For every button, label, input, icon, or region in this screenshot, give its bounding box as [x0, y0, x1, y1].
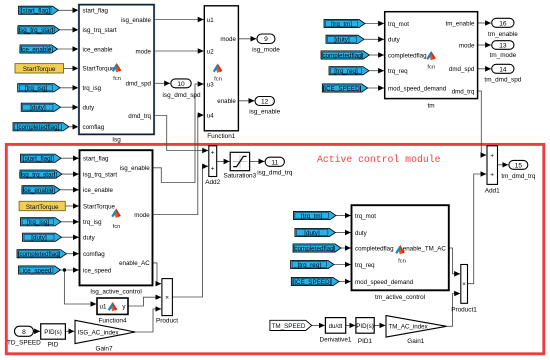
svg-text:11: 11 [271, 159, 278, 166]
constant StartTorque (bottom left) [19, 201, 65, 211]
svg-text:[duty]: [duty] [30, 105, 46, 112]
inport 8 TD_SPEED [7, 326, 41, 346]
svg-text:comflag: comflag [83, 124, 105, 131]
sum block Add2 [205, 146, 220, 186]
wire tm mode to outport 13 [478, 44, 491, 46]
svg-text:u3: u3 [207, 81, 214, 88]
wire tm dmd_spd to outport 14 [478, 68, 491, 70]
svg-text:ice_enable: ice_enable [83, 46, 113, 53]
svg-text:Product1: Product1 [451, 307, 477, 314]
svg-text:enable: enable [217, 98, 236, 105]
outport 10 isg_dmd_spd [162, 79, 200, 99]
junction node on ice_speed wire [63, 268, 66, 271]
from tag TM_SPEED (bottom) [270, 320, 312, 330]
wire completedflag to Isg_active_control [67, 253, 79, 255]
svg-text:PID(s): PID(s) [356, 323, 374, 330]
from tag [ICE_SPEED] (top right) [322, 84, 367, 92]
svg-text:mode: mode [136, 48, 152, 55]
wire ICE_SPEED to tm_active_control [339, 281, 351, 283]
svg-text:8: 8 [22, 329, 26, 336]
wire completedflag to tm [369, 54, 384, 56]
svg-text:tm_enable: tm_enable [445, 20, 474, 27]
svg-text:9: 9 [264, 36, 268, 43]
outport 13 tm_mode [490, 41, 517, 59]
wire Isg dmd_spd to outport 10 [154, 82, 170, 84]
outport 9 isg_mode [252, 34, 280, 53]
svg-text:tm: tm [428, 103, 435, 110]
constant StartTorque (top) [15, 64, 64, 74]
svg-text:[completedflag]: [completedflag] [17, 124, 60, 131]
svg-text:14: 14 [499, 66, 507, 73]
svg-text:duty: duty [355, 230, 368, 237]
svg-text:[trq_req]: [trq_req] [298, 262, 322, 269]
svg-text:isg_dmd_spd: isg_dmd_spd [162, 92, 200, 99]
svg-text:TM_AC_index: TM_AC_index [389, 324, 429, 331]
from tag [start_flag] (bottom left) [21, 154, 62, 162]
product block Product [156, 279, 178, 325]
outport 12 isg_enable [249, 97, 280, 116]
svg-text:[ice_enable]: [ice_enable] [19, 46, 53, 53]
svg-text:[isg_trq_start]: [isg_trq_start] [19, 171, 57, 178]
svg-text:fcn: fcn [427, 65, 435, 71]
svg-text:[ICE_SPEED]: [ICE_SPEED] [323, 85, 362, 92]
svg-text:enable_AC: enable_AC [119, 260, 150, 267]
wire completedflag to Isg [69, 126, 78, 128]
svg-text:×: × [462, 281, 466, 288]
subsystem Isg_active_control [80, 150, 153, 295]
svg-text:isg_trq_start: isg_trq_start [83, 27, 117, 34]
svg-text:mode: mode [134, 212, 150, 219]
gain block Gain7 [75, 320, 135, 352]
from tag [duty] (bottom left) [23, 233, 62, 241]
svg-text:u2: u2 [207, 48, 214, 55]
outport 14 tm_dmd_spd [484, 64, 521, 83]
from tag [trq_isg] (bottom left) [21, 218, 62, 226]
svg-text:Function4: Function4 [98, 317, 127, 324]
svg-text:+: + [490, 153, 494, 160]
gain block Gain1 [386, 316, 447, 346]
wire trq_req to tm [369, 70, 384, 72]
wire isg_trq_start to Isg [60, 29, 79, 31]
svg-text:u1: u1 [207, 17, 214, 24]
wire tm_active_control enable_TM_AC to Product1 input 1 [449, 248, 460, 274]
wire tm tm_enable to outport 16 [478, 22, 491, 24]
svg-text:Product: Product [156, 318, 178, 325]
wire Saturation3 to outport 11 [250, 160, 265, 162]
from tag [completedflag] (bottom left) [17, 250, 67, 258]
wire duty to tm_active_control [335, 232, 350, 234]
wire Gain7 to Product input 3 [135, 309, 161, 332]
svg-text:ice_speed: ice_speed [83, 267, 112, 274]
svg-text:PID: PID [48, 342, 59, 349]
svg-text:13: 13 [499, 43, 507, 50]
svg-text:[duty]: [duty] [334, 37, 350, 44]
svg-text:[ICE_SPEED]: [ICE_SPEED] [293, 279, 332, 286]
wire TM_SPEED to Derivative1 [312, 324, 325, 326]
svg-text:completedflag: completedflag [388, 52, 427, 59]
svg-text:TD_SPEED: TD_SPEED [7, 339, 41, 346]
svg-text:PID1: PID1 [358, 338, 373, 345]
svg-text:[isg_trq_start]: [isg_trq_start] [17, 27, 55, 34]
from tag [ice_enable] (top) [19, 45, 57, 53]
svg-text:Isg_active_control: Isg_active_control [90, 288, 142, 295]
svg-text:u1: u1 [100, 304, 107, 311]
wire Gain1 to Product1 input 2 [447, 294, 460, 327]
svg-text:ISG_AC_index: ISG_AC_index [78, 329, 120, 336]
svg-text:start_flag: start_flag [83, 8, 109, 15]
wire Isg_active_control mode to Function1 u4 [153, 115, 204, 214]
svg-text:PID(s): PID(s) [44, 329, 62, 336]
wire ice_enable to Isg_active_control [60, 189, 79, 191]
from tag [duty] (bottom right) [295, 228, 336, 236]
wire trq_isg to Isg_active_control [61, 221, 79, 223]
from tag [isg_trq_start] (top) [17, 26, 60, 34]
wire Function4 y to Product input 2 [128, 297, 161, 306]
subsystem tm_active_control [352, 205, 449, 301]
svg-text:tm_dmd_trq: tm_dmd_trq [501, 173, 536, 180]
wire duty to Isg [61, 106, 79, 108]
svg-text:Add2: Add2 [205, 179, 220, 186]
svg-text:isg_trq_start: isg_trq_start [83, 171, 117, 178]
saturation block Saturation3 [223, 152, 256, 179]
wire ice_speed to Isg_active_control [61, 269, 79, 271]
svg-text:dmd_trq: dmd_trq [452, 88, 475, 95]
svg-text:trq_req: trq_req [355, 262, 375, 269]
sum block Add1 [485, 146, 500, 195]
svg-text:Saturation3: Saturation3 [223, 173, 256, 180]
svg-text:[completedflag]: [completedflag] [321, 52, 364, 59]
svg-text:[start_flag]: [start_flag] [21, 8, 51, 15]
wire branch ice_speed down to Function4 u1 [64, 270, 96, 304]
svg-text:[start_flag]: [start_flag] [23, 156, 53, 163]
svg-text:dmd_trq: dmd_trq [128, 113, 151, 120]
wire Isg_active_control isg_enable to Function1 u3 [153, 84, 204, 183]
product block Product1 [451, 265, 477, 314]
svg-text:fcn: fcn [113, 76, 121, 82]
svg-text:trq_mot: trq_mot [355, 213, 376, 220]
svg-text:tm_active_control: tm_active_control [375, 294, 425, 301]
svg-text:Function1: Function1 [207, 133, 236, 140]
svg-text:dmd_spd: dmd_spd [126, 81, 152, 88]
wire trq_req to tm_active_control [334, 264, 351, 266]
derivative block Derivative1 [320, 318, 352, 344]
from tag [isg_trq_start] (bottom left) [19, 170, 62, 178]
svg-text:×: × [165, 294, 169, 301]
wire completedflag to tm_active_control [341, 247, 351, 249]
svg-text:StartTorque: StartTorque [83, 66, 116, 73]
wire Add1 to outport 15 [498, 164, 509, 166]
wire StartTorque to Isg_active_control [65, 205, 78, 207]
wire inport 8 to PID [33, 330, 40, 332]
svg-text:duty: duty [83, 105, 96, 112]
from tag [ICE_SPEED] (bottom right) [291, 277, 339, 285]
svg-text:[trq_tm]: [trq_tm] [301, 213, 323, 220]
svg-text:mod_speed_demand: mod_speed_demand [388, 85, 447, 92]
svg-text:mod_speed_demand: mod_speed_demand [355, 279, 414, 286]
svg-text:Gain1: Gain1 [407, 338, 424, 345]
svg-text:trq_isg: trq_isg [83, 85, 102, 92]
svg-text:[duty]: [duty] [304, 230, 320, 237]
wire trq_tm to tm_active_control [336, 215, 351, 217]
subsystem tm [385, 12, 478, 110]
svg-text:Gain7: Gain7 [95, 345, 112, 352]
svg-text:isg_dmd_trq: isg_dmd_trq [257, 169, 293, 176]
wire ICE_SPEED to tm [368, 87, 384, 89]
from tag [trq_req] (bottom right) [291, 260, 334, 268]
svg-text:tm_dmd_spd: tm_dmd_spd [484, 77, 521, 84]
svg-text:[trq_tm]: [trq_tm] [331, 21, 353, 28]
svg-text:trq_req: trq_req [388, 68, 408, 75]
from tag [start_flag] (top) [19, 6, 59, 14]
svg-text:[trq_isg]: [trq_isg] [25, 85, 48, 92]
function block Function1 [204, 6, 238, 140]
svg-text:Active control module: Active control module [317, 154, 441, 165]
svg-text:isg_enable: isg_enable [249, 108, 280, 115]
svg-text:duty: duty [83, 235, 96, 242]
from tag [trq_tm] (bottom right) [293, 211, 336, 219]
svg-text:mode: mode [459, 42, 475, 49]
svg-text:Isg: Isg [112, 137, 121, 144]
wire Derivative1 to PID1 [346, 324, 355, 326]
svg-text:16: 16 [499, 20, 507, 27]
svg-text:ice_speed: ice_speed [23, 267, 52, 274]
outport 15 tm_dmd_trq [501, 160, 536, 179]
svg-text:mode: mode [220, 36, 236, 43]
svg-text:[trq_req]: [trq_req] [334, 68, 358, 75]
pid block PID1 [356, 318, 374, 346]
svg-text:completedflag: completedflag [355, 245, 394, 252]
wire isg_trq_start to Isg_active_control [62, 173, 79, 175]
svg-text:fcn: fcn [113, 224, 121, 230]
from tag [trq_req] (top right) [329, 67, 369, 75]
wire start_flag to Isg [59, 9, 79, 11]
wire Product to Add2 input 2 [172, 166, 208, 297]
Active control module red boundary box [6, 144, 544, 353]
svg-text:isg_mode: isg_mode [252, 46, 280, 53]
wire Isg isg_enable to Function1 u1 [154, 19, 204, 21]
svg-text:[duty]: [duty] [31, 235, 47, 242]
subsystem Isg [79, 5, 154, 144]
wire duty to Isg_active_control [62, 236, 79, 238]
function block Function4 [97, 298, 128, 324]
wire Isg mode to Function1 u2 [154, 50, 204, 52]
svg-text:StartTorque: StartTorque [23, 66, 56, 73]
svg-text:+: + [490, 172, 494, 179]
from tag [trq_isg] (top) [18, 84, 60, 92]
svg-text:[completedflag]: [completedflag] [293, 245, 336, 252]
wire Isg dmd_trq to Add2 input 1 [154, 116, 208, 151]
from tag [ice_speed] (bottom left) [19, 266, 61, 274]
from tag [duty] (top right) [326, 35, 364, 43]
outport 11 isg_dmd_trq [257, 157, 293, 176]
svg-text:ice_enable: ice_enable [83, 187, 113, 194]
svg-text:u4: u4 [207, 112, 214, 119]
svg-text:tm_enable: tm_enable [488, 31, 518, 38]
from tag [completedflag] (top) [13, 123, 69, 131]
svg-text:[ice_enable]: [ice_enable] [21, 187, 55, 194]
svg-text:isg_enable: isg_enable [120, 165, 150, 172]
svg-text:duty: duty [388, 37, 401, 44]
svg-text:comflag: comflag [83, 251, 105, 258]
svg-text:tm_mode: tm_mode [490, 52, 517, 59]
svg-text:[completedflag]: [completedflag] [18, 251, 61, 258]
wire trq_tm to tm [365, 23, 384, 25]
wire start_flag to Isg_active_control [61, 157, 79, 159]
svg-text:TM_SPEED: TM_SPEED [272, 323, 306, 330]
svg-text:fcn: fcn [214, 76, 222, 82]
svg-text:fcn: fcn [398, 258, 406, 264]
svg-text:trq_isg: trq_isg [83, 219, 102, 226]
wire Function1 mode to outport 9 [238, 38, 256, 40]
svg-text:10: 10 [177, 81, 185, 88]
wire PID1 to Gain1 [374, 324, 385, 326]
wire StartTorque to Isg [64, 67, 79, 69]
svg-text:trq_mot: trq_mot [388, 21, 409, 28]
wire Add2 to Saturation3 [217, 160, 230, 162]
wire trq_isg to Isg [60, 87, 78, 89]
svg-text:Derivative1: Derivative1 [320, 337, 352, 344]
svg-text:StartTorque: StartTorque [26, 204, 59, 211]
from tag [duty] (top) [21, 103, 60, 111]
from tag [ice_enable] (bottom left) [21, 186, 60, 194]
svg-text:du/dt: du/dt [329, 323, 343, 330]
wire ice_enable to Isg [58, 48, 79, 50]
pid block PID [41, 324, 66, 349]
svg-text:StartTorque: StartTorque [83, 203, 116, 210]
wire Function1 enable to outport 12 [238, 100, 254, 102]
wire duty to tm [364, 38, 384, 40]
svg-text:start_flag: start_flag [83, 156, 109, 163]
wire Isg_active_control enable_AC to Product input 1 [153, 263, 162, 284]
svg-text:enable_TM_AC: enable_TM_AC [403, 245, 447, 252]
svg-text:[trq_isg]: [trq_isg] [27, 219, 50, 226]
svg-text:dmd_spd: dmd_spd [449, 66, 475, 73]
wire Product1 to Add1 input 2 [468, 174, 487, 284]
svg-text:15: 15 [515, 162, 523, 169]
svg-text:+: + [211, 166, 215, 173]
svg-text:Add1: Add1 [485, 187, 500, 194]
svg-text:isg_enable: isg_enable [121, 17, 151, 24]
svg-text:+: + [211, 150, 215, 157]
outport 16 tm_enable [488, 18, 518, 38]
wire PID to Gain7 [65, 330, 74, 332]
wire tm dmd_trq to Add1 input 1 [478, 91, 487, 155]
from tag [trq_tm] (top right) [324, 19, 365, 27]
svg-text:12: 12 [261, 99, 269, 106]
from tag [completedflag] (top right) [321, 51, 370, 59]
from tag [completedflag] (bottom right) [293, 244, 341, 252]
